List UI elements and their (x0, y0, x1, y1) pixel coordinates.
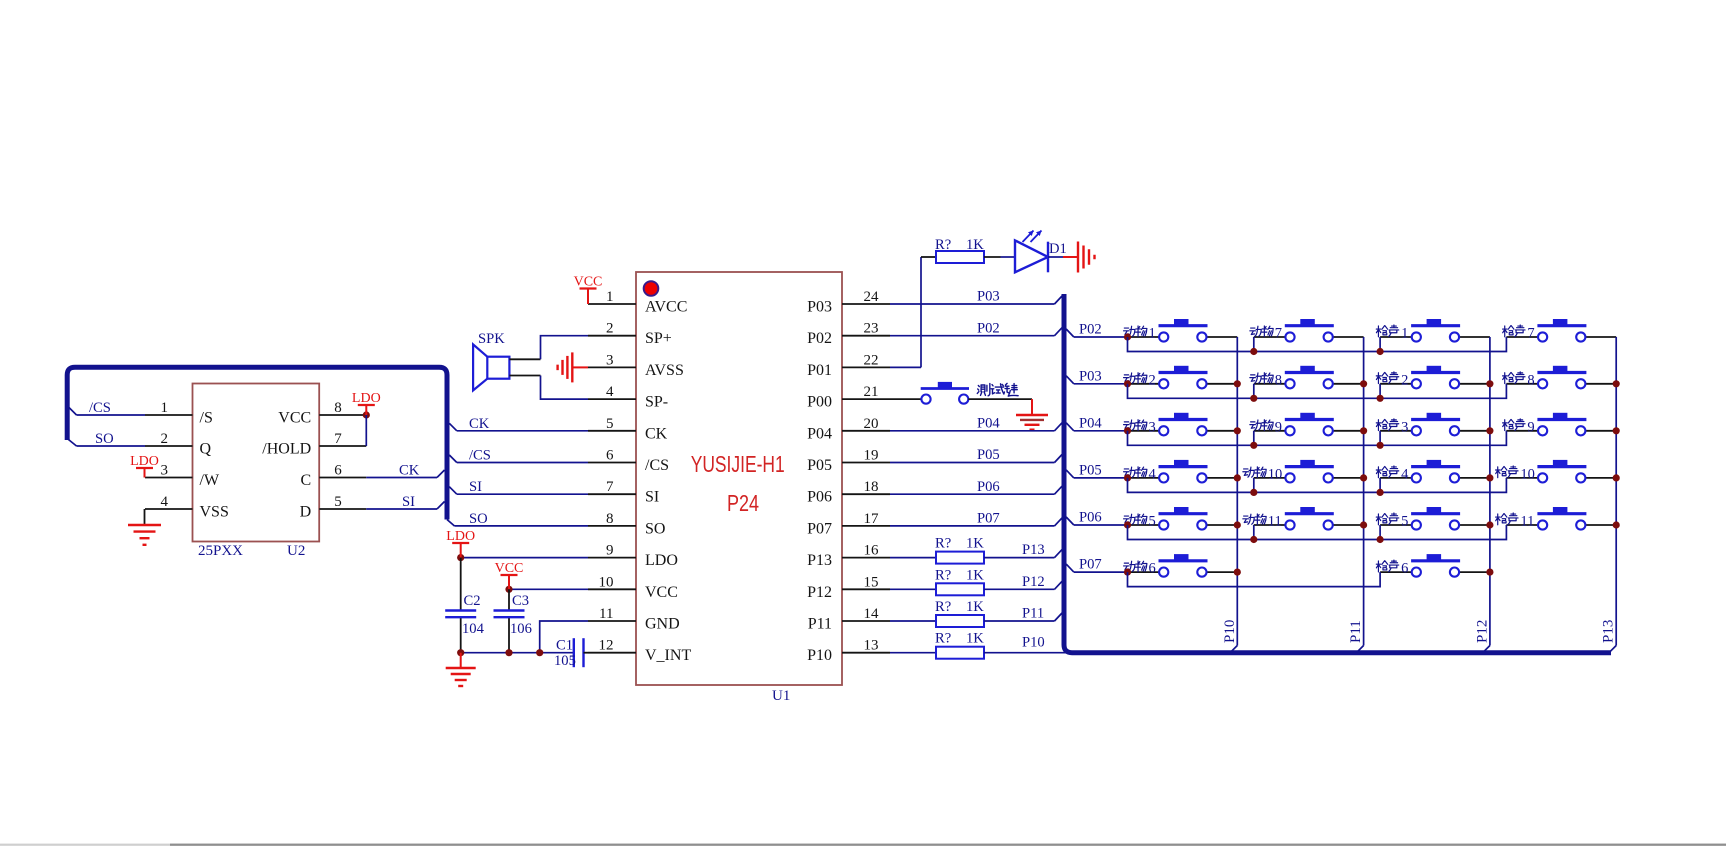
svg-text:6: 6 (606, 448, 614, 464)
svg-text:R?: R? (935, 536, 951, 552)
svg-text:24: 24 (864, 289, 880, 305)
svg-text:3: 3 (606, 352, 614, 368)
svg-text:P00: P00 (807, 394, 832, 411)
svg-text:CK: CK (645, 425, 668, 442)
svg-text:P11: P11 (1348, 620, 1364, 643)
svg-text:GND: GND (645, 616, 680, 633)
svg-text:VSS: VSS (200, 504, 229, 521)
svg-text:2: 2 (1401, 372, 1408, 388)
svg-text:C1: C1 (556, 638, 573, 654)
svg-text:Q: Q (200, 441, 212, 458)
svg-text:9: 9 (1275, 419, 1282, 435)
svg-text:SO: SO (95, 431, 114, 447)
svg-text:SI: SI (402, 494, 415, 510)
svg-text:23: 23 (864, 321, 879, 337)
svg-text:CK: CK (399, 463, 420, 479)
svg-text:P04: P04 (1079, 415, 1102, 431)
svg-text:VCC: VCC (574, 275, 603, 290)
svg-text:1: 1 (606, 289, 614, 305)
svg-text:18: 18 (864, 479, 879, 495)
svg-text:P07: P07 (807, 520, 832, 537)
svg-text:P03: P03 (977, 289, 1000, 305)
svg-text:1: 1 (1401, 326, 1408, 342)
svg-text:C: C (301, 472, 312, 489)
svg-text:P13: P13 (807, 552, 832, 569)
svg-text:/CS: /CS (89, 400, 111, 416)
svg-text:P04: P04 (807, 425, 832, 442)
svg-text:3: 3 (1149, 419, 1156, 435)
svg-text:P06: P06 (1079, 510, 1102, 526)
svg-text:15: 15 (864, 574, 879, 590)
svg-text:P07: P07 (1079, 557, 1102, 573)
svg-text:LDO: LDO (352, 391, 381, 406)
svg-text:P12: P12 (1022, 574, 1045, 590)
svg-text:SPK: SPK (478, 331, 505, 347)
svg-text:P05: P05 (1079, 463, 1102, 479)
svg-text:17: 17 (864, 511, 880, 527)
svg-text:4: 4 (1401, 466, 1409, 482)
svg-text:5: 5 (1401, 514, 1408, 530)
svg-text:2: 2 (161, 431, 169, 447)
svg-text:10: 10 (599, 574, 614, 590)
svg-text:10: 10 (1520, 466, 1535, 482)
svg-text:R?: R? (935, 599, 951, 615)
svg-text:LDO: LDO (446, 529, 475, 544)
svg-text:P13: P13 (1601, 620, 1617, 643)
svg-text:SI: SI (645, 489, 659, 506)
svg-text:U1: U1 (772, 688, 790, 704)
svg-text:LDO: LDO (645, 552, 678, 569)
svg-text:D1: D1 (1049, 241, 1067, 257)
svg-text:P10: P10 (1022, 635, 1045, 651)
svg-text:7: 7 (1527, 326, 1534, 342)
svg-text:1: 1 (1149, 326, 1156, 342)
svg-text:8: 8 (1527, 372, 1534, 388)
svg-text:1K: 1K (966, 237, 984, 253)
svg-text:10: 10 (1268, 466, 1283, 482)
svg-text:SP-: SP- (645, 394, 668, 411)
svg-text:13: 13 (864, 638, 879, 654)
svg-text:1K: 1K (966, 567, 984, 583)
svg-text:1: 1 (161, 400, 169, 416)
svg-text:P12: P12 (807, 584, 832, 601)
svg-text:3: 3 (161, 463, 169, 479)
svg-text:/W: /W (200, 472, 220, 489)
svg-text:C3: C3 (512, 593, 529, 609)
svg-text:6: 6 (1401, 561, 1408, 577)
svg-text:2: 2 (606, 321, 614, 337)
svg-text:SI: SI (469, 479, 482, 495)
svg-text:5: 5 (1149, 514, 1156, 530)
svg-text:9: 9 (1527, 419, 1534, 435)
svg-text:16: 16 (864, 543, 880, 559)
svg-text:R?: R? (935, 631, 951, 647)
svg-text:P03: P03 (807, 299, 832, 316)
svg-text:CK: CK (469, 416, 490, 432)
svg-text:12: 12 (599, 638, 614, 654)
svg-text:P11: P11 (1022, 606, 1044, 622)
svg-text:P06: P06 (977, 479, 1000, 495)
svg-text:/HOLD: /HOLD (262, 441, 311, 458)
svg-text:20: 20 (864, 416, 879, 432)
svg-text:VCC: VCC (495, 561, 524, 576)
svg-text:/CS: /CS (469, 448, 491, 464)
svg-text:8: 8 (1275, 372, 1282, 388)
svg-text:22: 22 (864, 352, 879, 368)
svg-text:7: 7 (334, 431, 342, 447)
svg-text:/S: /S (200, 410, 213, 427)
svg-text:P06: P06 (807, 489, 832, 506)
svg-text:1K: 1K (966, 631, 984, 647)
svg-text:SO: SO (645, 520, 665, 537)
svg-text:2: 2 (1149, 372, 1156, 388)
svg-text:P02: P02 (1079, 322, 1102, 338)
svg-text:P24: P24 (727, 490, 759, 516)
svg-text:104: 104 (462, 621, 485, 637)
svg-text:P03: P03 (1079, 368, 1102, 384)
svg-text:1K: 1K (966, 536, 984, 552)
svg-text:19: 19 (864, 448, 879, 464)
svg-text:4: 4 (606, 384, 614, 400)
svg-text:C2: C2 (464, 593, 481, 609)
svg-text:25PXX: 25PXX (198, 543, 243, 559)
svg-text:YUSIJIE-H1: YUSIJIE-H1 (691, 451, 785, 477)
svg-text:/CS: /CS (645, 457, 669, 474)
svg-text:P13: P13 (1022, 542, 1045, 558)
svg-text:106: 106 (510, 621, 532, 637)
svg-text:P05: P05 (977, 447, 1000, 463)
svg-text:AVSS: AVSS (645, 362, 684, 379)
svg-text:VCC: VCC (278, 410, 311, 427)
svg-text:U2: U2 (287, 543, 305, 559)
svg-text:SO: SO (469, 511, 488, 527)
svg-text:P01: P01 (807, 362, 832, 379)
svg-text:5: 5 (334, 494, 342, 510)
svg-text:P02: P02 (977, 320, 1000, 336)
svg-text:21: 21 (864, 384, 879, 400)
svg-text:AVCC: AVCC (645, 299, 687, 316)
svg-text:8: 8 (334, 400, 342, 416)
svg-text:4: 4 (1149, 466, 1157, 482)
svg-text:9: 9 (606, 543, 614, 559)
svg-text:P07: P07 (977, 511, 1000, 527)
svg-text:105: 105 (554, 653, 576, 669)
svg-text:4: 4 (161, 494, 169, 510)
svg-text:8: 8 (606, 511, 614, 527)
svg-text:LDO: LDO (130, 454, 159, 469)
svg-text:VCC: VCC (645, 584, 678, 601)
svg-text:P04: P04 (977, 415, 1000, 431)
svg-text:P02: P02 (807, 330, 832, 347)
svg-text:P12: P12 (1474, 620, 1490, 643)
svg-text:P11: P11 (808, 616, 832, 633)
svg-text:1K: 1K (966, 599, 984, 615)
svg-text:R?: R? (935, 567, 951, 583)
svg-text:14: 14 (864, 606, 880, 622)
svg-text:11: 11 (1520, 514, 1534, 530)
svg-text:7: 7 (1275, 326, 1282, 342)
svg-text:3: 3 (1401, 419, 1408, 435)
svg-text:5: 5 (606, 416, 614, 432)
svg-text:6: 6 (334, 463, 342, 479)
svg-text:P10: P10 (807, 647, 832, 664)
svg-text:P10: P10 (1222, 620, 1238, 643)
svg-text:7: 7 (606, 479, 614, 495)
svg-text:11: 11 (1268, 514, 1282, 530)
svg-text:P05: P05 (807, 457, 832, 474)
svg-text:R?: R? (935, 237, 951, 253)
svg-text:D: D (300, 504, 312, 521)
svg-text:V_INT: V_INT (645, 647, 691, 664)
svg-text:SP+: SP+ (645, 330, 672, 347)
svg-text:6: 6 (1149, 561, 1156, 577)
svg-text:11: 11 (599, 606, 613, 622)
